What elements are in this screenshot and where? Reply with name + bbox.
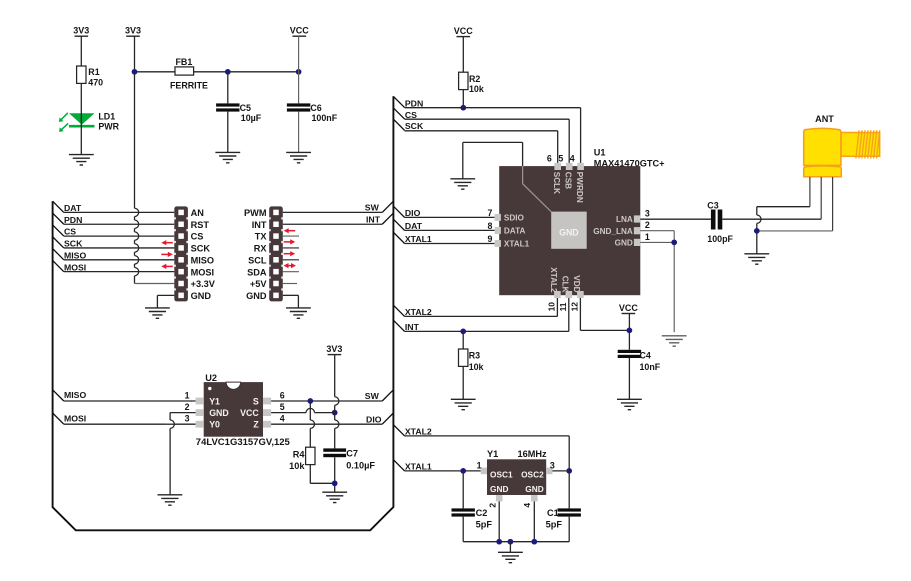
svg-text:TX: TX bbox=[255, 232, 268, 242]
svg-text:CLK: CLK bbox=[560, 276, 569, 293]
svg-text:16MHz: 16MHz bbox=[518, 449, 548, 459]
svg-text:5pF: 5pF bbox=[476, 519, 493, 529]
svg-text:CSB: CSB bbox=[564, 172, 573, 189]
svg-text:4: 4 bbox=[522, 503, 532, 508]
svg-text:5: 5 bbox=[558, 153, 563, 163]
svg-text:VCC: VCC bbox=[290, 26, 310, 36]
svg-text:4: 4 bbox=[280, 414, 285, 424]
svg-text:C6: C6 bbox=[310, 103, 321, 113]
svg-text:1: 1 bbox=[477, 460, 482, 470]
svg-text:6: 6 bbox=[280, 390, 285, 400]
svg-text:S: S bbox=[253, 396, 259, 406]
svg-text:GND: GND bbox=[525, 484, 543, 494]
svg-text:DIO: DIO bbox=[405, 208, 421, 218]
svg-text:DAT: DAT bbox=[64, 203, 82, 213]
svg-text:100nF: 100nF bbox=[312, 113, 338, 123]
svg-text:LNA: LNA bbox=[616, 215, 633, 224]
svg-text:GND: GND bbox=[490, 484, 508, 494]
svg-text:LD1: LD1 bbox=[98, 112, 115, 122]
svg-text:2: 2 bbox=[488, 503, 498, 508]
svg-text:6: 6 bbox=[547, 153, 552, 163]
svg-text:1: 1 bbox=[645, 232, 650, 242]
svg-text:3V3: 3V3 bbox=[326, 344, 342, 354]
svg-text:GND: GND bbox=[615, 239, 633, 248]
svg-text:9: 9 bbox=[487, 234, 492, 244]
svg-text:SCK: SCK bbox=[191, 244, 211, 254]
svg-text:10nF: 10nF bbox=[640, 362, 661, 372]
svg-text:R3: R3 bbox=[469, 350, 480, 360]
svg-text:PDN: PDN bbox=[405, 98, 423, 108]
svg-text:SCK: SCK bbox=[64, 239, 83, 249]
svg-text:PWR: PWR bbox=[98, 122, 119, 132]
svg-text:GND: GND bbox=[559, 227, 579, 237]
svg-text:2: 2 bbox=[185, 402, 190, 412]
svg-text:12: 12 bbox=[569, 302, 579, 312]
svg-text:FERRITE: FERRITE bbox=[170, 80, 208, 90]
svg-text:3V3: 3V3 bbox=[73, 26, 89, 36]
svg-text:3: 3 bbox=[185, 414, 190, 424]
svg-text:100pF: 100pF bbox=[707, 234, 733, 244]
svg-text:Z: Z bbox=[253, 420, 259, 430]
svg-text:3: 3 bbox=[550, 460, 555, 470]
svg-text:MOSI: MOSI bbox=[191, 267, 214, 277]
svg-text:MOSI: MOSI bbox=[64, 413, 86, 423]
svg-text:CS: CS bbox=[64, 227, 76, 237]
svg-text:0.10µF: 0.10µF bbox=[346, 460, 375, 470]
svg-text:MISO: MISO bbox=[64, 390, 86, 400]
svg-text:470: 470 bbox=[88, 78, 103, 88]
svg-text:74LVC1G3157GV,125: 74LVC1G3157GV,125 bbox=[196, 437, 291, 448]
svg-text:C4: C4 bbox=[640, 350, 651, 360]
svg-text:SCK: SCK bbox=[405, 121, 424, 131]
svg-text:DAT: DAT bbox=[405, 221, 423, 231]
svg-text:XTAL2: XTAL2 bbox=[405, 427, 432, 437]
svg-text:Y0: Y0 bbox=[209, 420, 220, 430]
svg-text:VCC: VCC bbox=[619, 303, 639, 313]
svg-text:10: 10 bbox=[546, 302, 556, 312]
svg-text:U1: U1 bbox=[594, 148, 606, 158]
svg-text:VCC: VCC bbox=[454, 26, 474, 36]
svg-text:OSC2: OSC2 bbox=[521, 469, 544, 479]
svg-text:PWRDN: PWRDN bbox=[575, 172, 584, 203]
svg-text:GND: GND bbox=[209, 408, 229, 418]
svg-text:SCL: SCL bbox=[248, 255, 267, 265]
svg-text:FB1: FB1 bbox=[176, 57, 193, 67]
svg-text:8: 8 bbox=[487, 221, 492, 231]
svg-text:SCLK: SCLK bbox=[552, 172, 561, 194]
svg-text:OSC1: OSC1 bbox=[490, 469, 513, 479]
svg-text:R1: R1 bbox=[88, 67, 99, 77]
svg-text:RST: RST bbox=[191, 220, 210, 230]
svg-text:+3.3V: +3.3V bbox=[191, 279, 216, 289]
svg-text:CS: CS bbox=[405, 110, 417, 120]
svg-text:10µF: 10µF bbox=[241, 113, 262, 123]
svg-text:Y1: Y1 bbox=[209, 396, 220, 406]
svg-text:5: 5 bbox=[280, 402, 285, 412]
svg-text:INT: INT bbox=[405, 322, 420, 332]
svg-text:R4: R4 bbox=[293, 449, 306, 459]
svg-text:XTAL2: XTAL2 bbox=[405, 307, 432, 317]
svg-text:7: 7 bbox=[487, 208, 492, 218]
svg-text:2: 2 bbox=[645, 220, 650, 230]
svg-text:CS: CS bbox=[191, 232, 204, 242]
svg-text:INT: INT bbox=[366, 214, 381, 224]
svg-text:R2: R2 bbox=[469, 74, 480, 84]
svg-text:PDN: PDN bbox=[64, 215, 82, 225]
svg-text:AN: AN bbox=[191, 208, 205, 218]
svg-text:5pF: 5pF bbox=[546, 519, 563, 529]
svg-text:MISO: MISO bbox=[64, 250, 86, 260]
svg-text:INT: INT bbox=[252, 220, 267, 230]
svg-text:GND_LNA: GND_LNA bbox=[593, 227, 633, 236]
svg-text:ANT: ANT bbox=[815, 114, 834, 124]
svg-text:RX: RX bbox=[254, 244, 268, 254]
svg-text:11: 11 bbox=[558, 302, 568, 311]
svg-text:XTAL1: XTAL1 bbox=[405, 234, 432, 244]
svg-text:3V3: 3V3 bbox=[125, 26, 141, 36]
svg-text:C7: C7 bbox=[346, 449, 358, 459]
svg-text:C5: C5 bbox=[240, 103, 251, 113]
svg-text:C2: C2 bbox=[476, 508, 488, 518]
svg-text:1: 1 bbox=[185, 390, 190, 400]
svg-text:4: 4 bbox=[570, 153, 575, 163]
svg-text:10k: 10k bbox=[469, 362, 484, 372]
svg-text:XTAL1: XTAL1 bbox=[504, 240, 530, 249]
svg-text:3: 3 bbox=[645, 208, 650, 218]
svg-text:XTAL2: XTAL2 bbox=[549, 267, 558, 293]
svg-text:DATA: DATA bbox=[504, 227, 526, 236]
svg-text:10k: 10k bbox=[469, 84, 484, 94]
svg-text:SDA: SDA bbox=[247, 267, 267, 277]
svg-text:VDD: VDD bbox=[572, 275, 581, 292]
svg-text:SW: SW bbox=[365, 203, 380, 213]
svg-text:GND: GND bbox=[191, 291, 212, 301]
svg-text:DIO: DIO bbox=[366, 414, 382, 424]
svg-text:MISO: MISO bbox=[191, 255, 214, 265]
svg-text:C3: C3 bbox=[707, 200, 718, 210]
svg-text:VCC: VCC bbox=[240, 408, 259, 418]
svg-text:SW: SW bbox=[365, 391, 380, 401]
svg-text:XTAL1: XTAL1 bbox=[405, 462, 432, 472]
svg-text:C1: C1 bbox=[547, 508, 559, 518]
svg-text:10k: 10k bbox=[289, 461, 305, 471]
svg-text:SDIO: SDIO bbox=[504, 214, 525, 223]
svg-text:GND: GND bbox=[246, 291, 267, 301]
svg-text:MAX41470GTC+: MAX41470GTC+ bbox=[594, 158, 665, 168]
svg-text:MOSI: MOSI bbox=[64, 262, 86, 272]
svg-text:PWM: PWM bbox=[244, 208, 267, 218]
svg-text:+5V: +5V bbox=[250, 279, 267, 289]
svg-text:U2: U2 bbox=[205, 373, 217, 383]
svg-text:Y1: Y1 bbox=[487, 449, 498, 459]
